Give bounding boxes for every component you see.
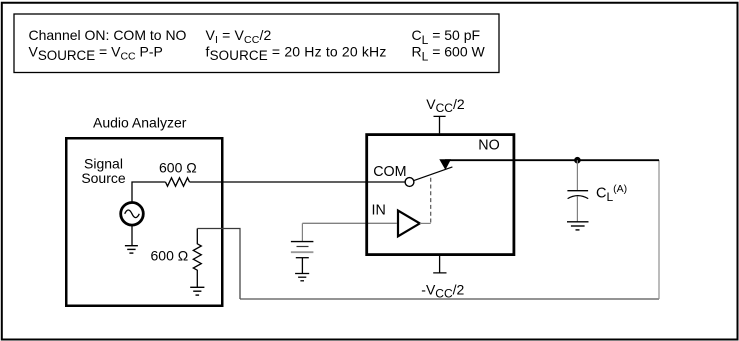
svg-text:COM: COM [373, 164, 406, 180]
svg-text:Source: Source [81, 170, 126, 186]
power terminal VCC/2 [434, 116, 446, 133]
analog switch U1 box [367, 135, 514, 255]
buffer driver (triangle) [398, 211, 420, 237]
svg-text:Signal: Signal [84, 156, 123, 172]
wire junction to capacitor [576, 160, 578, 190]
wire capacitor to ground [576, 197, 578, 222]
wire source bottom to ground [131, 225, 133, 246]
power terminal -VCC/2 [433, 256, 446, 273]
wire buffer output [420, 222, 431, 224]
capacitor CL [567, 190, 588, 192]
switch arrow (NO contact) [439, 159, 451, 170]
battery VBIAS on IN pin [301, 223, 303, 241]
node output junction [574, 157, 581, 164]
wire battery to IN pin [302, 222, 396, 224]
pin COM open terminal [405, 178, 414, 187]
test conditions box [14, 14, 499, 73]
wire resistor to COM pin [190, 181, 405, 183]
ground (signal source) [125, 246, 138, 253]
resistor R2 600 ohm (shunt) [193, 229, 201, 288]
wire source top to resistor [132, 182, 166, 203]
signal source V1 (sine generator) [121, 203, 144, 226]
ground (shunt resistor) [190, 287, 204, 295]
svg-text:600 Ω: 600 Ω [151, 247, 189, 263]
switch pole (diagonal) [414, 167, 453, 181]
wire NO output [445, 159, 659, 161]
ground (battery) [295, 274, 309, 281]
audio analyzer box [66, 138, 222, 306]
svg-text:NO: NO [478, 137, 499, 153]
dashed control line [430, 175, 432, 223]
svg-text:Audio Analyzer: Audio Analyzer [93, 115, 187, 131]
svg-text:Channel ON: COM to NO: Channel ON: COM to NO [29, 27, 187, 43]
ground (capacitor) [567, 222, 589, 230]
svg-text:600 Ω: 600 Ω [159, 160, 197, 176]
svg-text:IN: IN [372, 203, 386, 219]
resistor R1 600 ohm (series) [166, 178, 190, 186]
wire feedback loop from shunt resistor to output node [197, 229, 240, 300]
